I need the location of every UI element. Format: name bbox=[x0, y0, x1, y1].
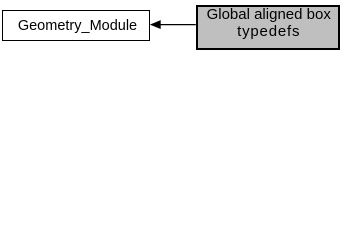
node Geometry_Module (label) bbox=[2, 19, 150, 34]
label line 2 bbox=[198, 24, 338, 39]
wire bbox=[160, 24, 196, 26]
arrowhead bbox=[151, 21, 161, 29]
node Global aligned box typedefs (current, highlighted box) bbox=[196, 5, 340, 51]
label line 1 bbox=[198, 7, 338, 22]
edge arrow (dependency: current module -> Geometry_Module) bbox=[0, 0, 345, 51]
node Geometry_Module (box) bbox=[2, 10, 150, 41]
